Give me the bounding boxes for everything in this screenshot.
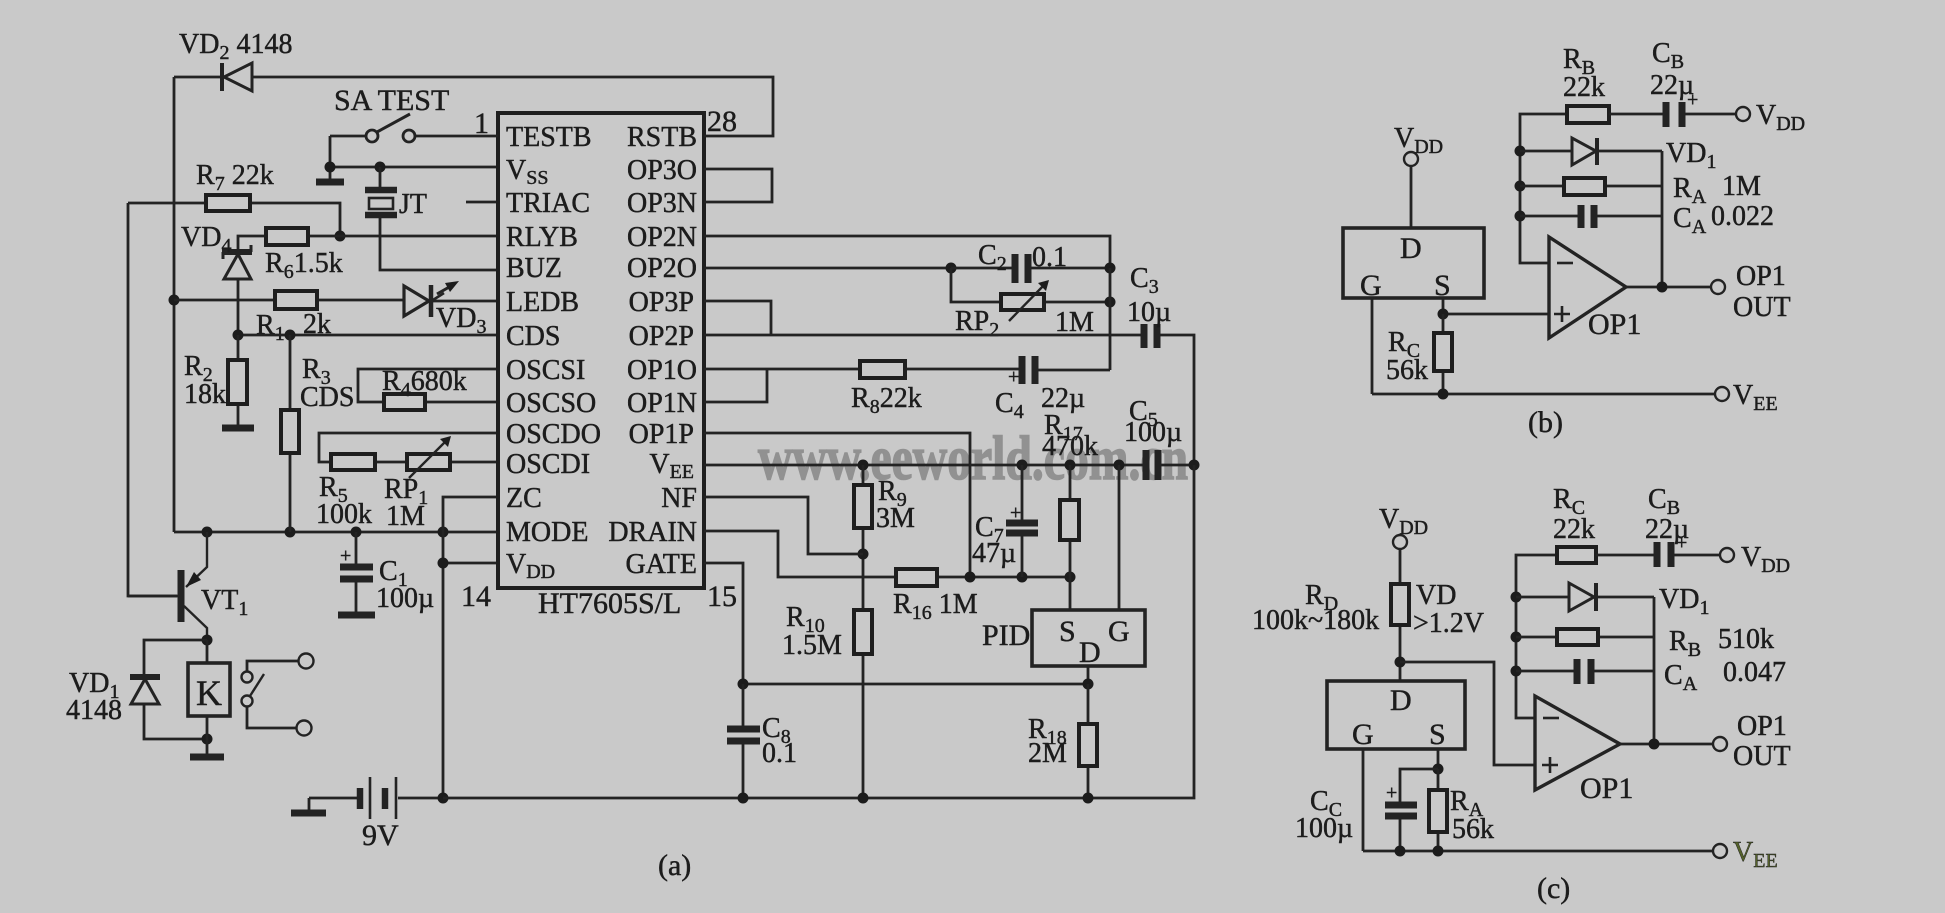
label VD2 4148 (179, 29, 292, 64)
node inv/VD1 (b) (1515, 146, 1526, 157)
label 9V (362, 819, 399, 852)
ground below C1 (338, 612, 375, 619)
node rail/R10 (858, 793, 869, 804)
label (b) (1528, 406, 1563, 439)
transistor VT1 (128, 532, 207, 640)
node S (b) (1438, 309, 1449, 320)
node MODE/C1 (351, 527, 362, 538)
pin label GATE (625, 549, 697, 580)
wire OP1P vertical (704, 433, 970, 577)
label CA 0.022 (b) (1673, 201, 1774, 238)
label RP1 1M (384, 474, 428, 532)
label R9 3M (876, 476, 915, 534)
pin label CDS (506, 321, 560, 352)
svg-text:D: D (1079, 636, 1101, 669)
potentiometer RP1 (407, 436, 451, 478)
svg-text:HT7605S/L: HT7605S/L (538, 587, 681, 620)
node MODE/ZC vertical (438, 527, 449, 538)
wire S pin down (c) (1437, 749, 1440, 769)
svg-text:OP1P: OP1P (629, 419, 694, 450)
capacitor C2 (951, 254, 1110, 283)
wire OP2N to feedback vertical (704, 236, 1110, 268)
wire OP1O row (704, 369, 1110, 370)
label JT (399, 189, 427, 220)
terminal VEE (c) (1713, 837, 1778, 872)
wire OSCDO loop (319, 433, 496, 462)
label R6 1.5k (265, 248, 343, 283)
wire OP2O row (704, 267, 951, 270)
wire feedback right vertical (b) (1661, 151, 1664, 287)
svg-text:100µ: 100µ (1295, 813, 1353, 844)
svg-text:OP1: OP1 (1588, 308, 1641, 341)
label RA 1M (b) (1673, 171, 1761, 208)
label CC 100u (c) (1295, 786, 1353, 844)
capacitor C5 (1146, 450, 1158, 480)
resistor R3 CDS photoresistor (281, 335, 299, 532)
label RC 56k (b) (1386, 327, 1428, 386)
svg-text:OUT: OUT (1733, 741, 1791, 772)
terminal VDD right (c) (1720, 542, 1790, 577)
label VT1 (201, 585, 248, 620)
node MODE/VT1 emitter (202, 527, 213, 538)
svg-text:15: 15 (707, 580, 737, 613)
svg-text:G: G (1352, 718, 1374, 751)
svg-text:S: S (1059, 615, 1076, 648)
wire R6 row to RLYB (238, 236, 496, 252)
svg-text:OP3N: OP3N (627, 188, 697, 219)
label R1 2k (256, 309, 331, 345)
node rail/R18 (1083, 793, 1094, 804)
node RC/VEE (b) (1438, 389, 1449, 400)
svg-text:47µ: 47µ (972, 538, 1016, 569)
resistor R18 (1079, 684, 1097, 798)
pin label DRAIN (608, 517, 697, 548)
node GATE/C8 (738, 679, 749, 690)
svg-text:22k: 22k (1563, 72, 1605, 103)
label (c) (1537, 872, 1570, 905)
resistor R1 (275, 291, 317, 309)
resistor R16 (896, 569, 937, 586)
label C2 0.1 (978, 240, 1067, 275)
node R16/R17/S (1065, 572, 1076, 583)
svg-text:OP1: OP1 (1580, 772, 1633, 805)
resistor R10 (854, 610, 872, 798)
label R10 1.5M (782, 602, 842, 661)
wire S pin to opamp plus and RC (b) (1443, 298, 1549, 314)
svg-text:1.5M: 1.5M (782, 630, 842, 661)
svg-text:18k: 18k (184, 379, 226, 410)
capacitor CC (c) (1385, 769, 1438, 851)
node CDS/R3 (285, 330, 296, 341)
wire OP3O OP3N loop (704, 169, 772, 202)
svg-text:470k: 470k (1042, 431, 1098, 462)
label VD4 (181, 222, 231, 257)
svg-text:MODE: MODE (506, 517, 588, 548)
PID sensor block (1032, 610, 1145, 669)
svg-text:R7 22k: R7 22k (196, 160, 274, 195)
pin label OSCDO (506, 419, 601, 450)
pin label OP1P (629, 419, 694, 450)
label CB 22u (c) (1645, 484, 1689, 545)
svg-text:JT: JT (399, 189, 427, 220)
wire VEE row (704, 464, 1194, 467)
pin label RSTB (627, 122, 697, 153)
resistor R8 (860, 361, 905, 378)
wire collector to VD1 (144, 640, 207, 739)
pin number 14 (461, 580, 491, 613)
svg-text:R4680k: R4680k (382, 366, 467, 401)
label RB 22k (b) (1563, 44, 1605, 103)
capacitor CA (b) (1520, 205, 1662, 228)
pin label OP2N (627, 222, 697, 253)
node MODE/R3 (285, 527, 296, 538)
node VEE/G wire (1114, 460, 1125, 471)
wire feedback right vertical (c) (1653, 597, 1656, 744)
label C5 100u (1124, 396, 1182, 448)
svg-text:D: D (1390, 684, 1412, 717)
capacitor C8 (727, 684, 760, 798)
pin label OP3O (627, 155, 697, 186)
ground below SA TEST (316, 179, 344, 186)
svg-text:OUT: OUT (1733, 292, 1791, 323)
svg-text:NF: NF (661, 483, 697, 514)
pin label VEE (649, 449, 694, 483)
label VD1 (c) (1659, 584, 1709, 619)
svg-text:ZC: ZC (506, 483, 542, 514)
label VD3 (436, 303, 486, 338)
wire R1 row (174, 300, 496, 301)
svg-text:TESTB: TESTB (506, 122, 592, 153)
svg-text:VD: VD (1416, 580, 1456, 611)
svg-text:TRIAC: TRIAC (506, 188, 590, 219)
wire left rail B R7 to VT1 base (128, 203, 177, 596)
terminal OP1 OUT (b) (1711, 261, 1791, 323)
pin label NF (661, 483, 697, 514)
label R16 1M (893, 589, 978, 624)
svg-text:K: K (196, 673, 222, 713)
label CA 0.047 (c) (1664, 657, 1786, 695)
node VSS/JT (375, 162, 386, 173)
svg-text:BUZ: BUZ (506, 253, 562, 284)
label PID (982, 619, 1030, 652)
wire MODE row (174, 531, 496, 534)
wire bottom rail (443, 465, 1194, 798)
svg-text:OP3P: OP3P (629, 287, 694, 318)
node R1 row left rail (169, 295, 180, 306)
resistor R2 (228, 335, 247, 427)
capacitor C7 (1006, 465, 1038, 577)
wire VEE rail (c) (1363, 850, 1713, 853)
node battery/vertical (438, 793, 449, 804)
label C3 10u (1127, 263, 1171, 328)
svg-text:9V: 9V (362, 819, 399, 852)
node inv/CA (c) (1511, 666, 1522, 677)
label RD 100k-180k (c) (1252, 580, 1379, 636)
diode VD4 (222, 245, 252, 279)
resistor R6 (266, 228, 308, 245)
svg-text:0.1: 0.1 (762, 738, 797, 769)
capacitor CB (b) (1609, 89, 1736, 127)
label R5 100k (316, 472, 372, 530)
diode VD1 (130, 677, 160, 704)
svg-text:G: G (1108, 615, 1130, 648)
svg-text:DRAIN: DRAIN (608, 517, 697, 548)
pin label RLYB (506, 222, 578, 253)
wire ZC vertical to battery rail (443, 497, 496, 798)
label VD1 (b) (1666, 138, 1716, 173)
svg-text:1M: 1M (1722, 171, 1761, 202)
svg-text:CDS: CDS (300, 382, 354, 413)
node VEE/R9 (858, 460, 869, 471)
label R4 680k (382, 366, 467, 401)
svg-text:OP1N: OP1N (627, 388, 697, 419)
wire DRAIN row through R16 (704, 531, 1070, 577)
pin label BUZ (506, 253, 562, 284)
svg-text:OSCSO: OSCSO (506, 388, 596, 419)
terminal VDD right (b) (1736, 100, 1805, 135)
ground below R2 (222, 425, 254, 432)
node VSS/switch (325, 162, 336, 173)
wire node to opamp plus (c) (1400, 662, 1535, 765)
crystal JT (365, 167, 496, 270)
label RB 510k (c) (1669, 624, 1774, 661)
label RA 56k (c) (1450, 786, 1494, 845)
pin label OP1O (627, 355, 697, 386)
wire G pin to VEE rail (b) (1371, 298, 1374, 394)
relay coil K (188, 663, 230, 716)
resistor RC (b) (1434, 314, 1452, 394)
ground below K (190, 754, 224, 761)
node C2 right (1105, 263, 1116, 274)
label SA TEST (334, 84, 449, 117)
sensor block D G S (c) (1327, 681, 1465, 751)
svg-text:CDS: CDS (506, 321, 560, 352)
svg-text:>1.2V: >1.2V (1413, 608, 1484, 639)
resistor R17 (1060, 465, 1079, 577)
svg-text:100µ: 100µ (1124, 417, 1182, 448)
node inv/VD1 (c) (1511, 592, 1522, 603)
watermark (758, 425, 1188, 493)
svg-text:PID: PID (982, 619, 1030, 652)
node RD bottom (c) (1395, 657, 1406, 668)
terminal VDD (c) sensor supply (1379, 504, 1428, 549)
node OP2O branch (946, 263, 957, 274)
node CDS/R2 (233, 330, 244, 341)
svg-text:S: S (1434, 269, 1451, 302)
svg-text:R61.5k: R61.5k (265, 248, 343, 283)
wire VDD pin row (443, 562, 496, 565)
label RP2 1M (955, 306, 1094, 341)
node R16/C7 (1017, 572, 1028, 583)
LED VD3 (404, 281, 459, 317)
svg-text:(c): (c) (1537, 872, 1570, 905)
svg-text:(b): (b) (1528, 406, 1563, 439)
pin label OSCSI (506, 355, 585, 386)
label R8 22k (851, 383, 922, 418)
svg-text:22µ: 22µ (1650, 70, 1694, 101)
op-amp OP1 (b) (1549, 237, 1641, 341)
svg-text:OP1O: OP1O (627, 355, 697, 386)
node VEE/R17 (1065, 460, 1076, 471)
resistor RD (c) (1391, 549, 1409, 681)
pin label ZC (506, 483, 542, 514)
svg-text:GATE: GATE (625, 549, 697, 580)
resistor R9 (854, 465, 872, 610)
label R17 470k (1042, 410, 1098, 462)
svg-text:1M: 1M (386, 501, 425, 532)
svg-text:+: + (1010, 502, 1021, 524)
op-amp IC U1 HT7605S/L body (498, 113, 704, 588)
pin label OP1N (627, 388, 697, 419)
wire left rail A (173, 77, 176, 532)
node CC/VEE (c) (1395, 846, 1406, 857)
capacitor CA (c) (1516, 659, 1654, 684)
pin label MODE (506, 517, 588, 548)
pin label OP2O (627, 253, 697, 284)
svg-text:R822k: R822k (851, 383, 922, 418)
svg-text:+: + (1008, 366, 1019, 388)
wire OP3P stub (704, 301, 771, 335)
svg-text:OP2P: OP2P (629, 321, 694, 352)
wire VEE rail (b) (1372, 393, 1715, 396)
resistor R4 (384, 394, 425, 410)
relay contact terminals (242, 654, 314, 736)
node output (b) (1657, 282, 1668, 293)
svg-text:510k: 510k (1718, 624, 1774, 655)
label RC 22k (c) (1553, 484, 1595, 545)
label VD1 4148 (66, 668, 122, 726)
op-amp OP1 (c) (1535, 696, 1633, 805)
pin number 28 (707, 105, 737, 138)
wire inverting input vertical (b) (1520, 114, 1567, 263)
capacitor C4 (1008, 356, 1035, 388)
pin label TRIAC (506, 188, 590, 219)
wire switch to ground and VSS row (330, 136, 496, 179)
pin label OP2P (629, 321, 694, 352)
pin label LEDB (506, 287, 579, 318)
node RA/VEE (c) (1433, 846, 1444, 857)
capacitor C3 (1144, 324, 1157, 348)
svg-text:0.047: 0.047 (1723, 657, 1786, 688)
wire D row (743, 683, 1088, 686)
resistor R5 (331, 454, 375, 470)
wire TRIAC stub (466, 201, 496, 204)
node output (c) (1649, 739, 1660, 750)
wire R7 row (128, 203, 340, 236)
svg-text:56k: 56k (1386, 355, 1428, 386)
node below K (202, 734, 213, 745)
wire OP2P row with C3 (704, 335, 1194, 465)
capacitor C1 (340, 532, 373, 612)
label C8 0.1 (762, 713, 797, 769)
svg-text:OP2N: OP2N (627, 222, 697, 253)
svg-text:R16 1M: R16 1M (893, 589, 978, 624)
svg-text:RSTB: RSTB (627, 122, 697, 153)
resistor RB (b) (1567, 106, 1609, 123)
svg-text:14: 14 (461, 580, 491, 613)
switch SA TEST (330, 114, 498, 142)
node RP2 right (1105, 297, 1116, 308)
svg-text:100µ: 100µ (376, 583, 434, 614)
svg-text:22µ: 22µ (1645, 514, 1689, 545)
node inv/RB (c) (1511, 632, 1522, 643)
wire G vertical to PID (1118, 465, 1121, 610)
node rail/C8 (738, 793, 749, 804)
terminal VEE (b) (1715, 380, 1778, 415)
node VEE/C5 right (1189, 460, 1200, 471)
svg-text:22k: 22k (1553, 514, 1595, 545)
resistor RA (c) (1429, 769, 1447, 851)
wire output (b) (1626, 286, 1711, 289)
resistor RC (c) (1557, 547, 1596, 563)
svg-text:+: + (340, 545, 351, 567)
svg-text:D: D (1400, 232, 1422, 265)
pin number 15 (707, 580, 737, 613)
label (a) (658, 849, 691, 882)
diode VD1 (c) (1516, 583, 1654, 611)
label C4 22u (995, 383, 1085, 423)
svg-text:+: + (1386, 782, 1397, 804)
wire top rail from left rail to pin 28 RSTB (174, 77, 773, 136)
svg-text:1M: 1M (1055, 307, 1094, 338)
svg-text:LEDB: LEDB (506, 287, 579, 318)
wire OP1N stub (704, 369, 767, 402)
svg-text:VD2 4148: VD2 4148 (179, 29, 292, 64)
svg-text:G: G (1360, 269, 1382, 302)
label R18 2M (1028, 714, 1067, 769)
pin label VSS (506, 155, 548, 189)
node VEE/C7 (1017, 460, 1028, 471)
pin label OSCDI (506, 449, 590, 480)
resistor RA (b) (1520, 178, 1662, 195)
label C1 100u (376, 556, 434, 614)
label R3 CDS (300, 354, 354, 413)
pin label OP3N (627, 188, 697, 219)
svg-text:100k~180k: 100k~180k (1252, 605, 1379, 636)
svg-text:OP2O: OP2O (627, 253, 697, 284)
svg-text:OSCDO: OSCDO (506, 419, 601, 450)
svg-text:OP1: OP1 (1737, 711, 1787, 742)
capacitor CB (c) (1596, 532, 1720, 567)
svg-text:OP3O: OP3O (627, 155, 697, 186)
wire feedback vertical to C4 row (1109, 268, 1112, 370)
resistor RB (c) (1516, 629, 1654, 645)
node inv/RA (b) (1515, 181, 1526, 192)
wire OSCSI loop (358, 369, 496, 402)
wire G pin to VEE (c) (1362, 749, 1365, 851)
label R7 22k (196, 160, 274, 195)
svg-text:S: S (1429, 718, 1446, 751)
diode VD2 (222, 63, 252, 91)
svg-text:OSCDI: OSCDI (506, 449, 590, 480)
node collector/relay (202, 635, 213, 646)
svg-text:0.1: 0.1 (1032, 242, 1067, 273)
pin label OP3P (629, 287, 694, 318)
node R16/OP1P (965, 572, 976, 583)
battery 9V (309, 777, 443, 819)
label VD 1.2V (c) (1413, 580, 1484, 639)
wire S vertical to PID (1069, 577, 1072, 610)
label C7 47u (972, 512, 1016, 569)
pin number 1 (474, 107, 489, 140)
svg-text:OSCSI: OSCSI (506, 355, 585, 386)
node R6/R7/RLYB (335, 231, 346, 242)
svg-text:28: 28 (707, 105, 737, 138)
wire CDS row (238, 334, 496, 337)
svg-text:RLYB: RLYB (506, 222, 578, 253)
wire output (c) (1620, 743, 1713, 746)
node S (c) (1433, 764, 1444, 775)
